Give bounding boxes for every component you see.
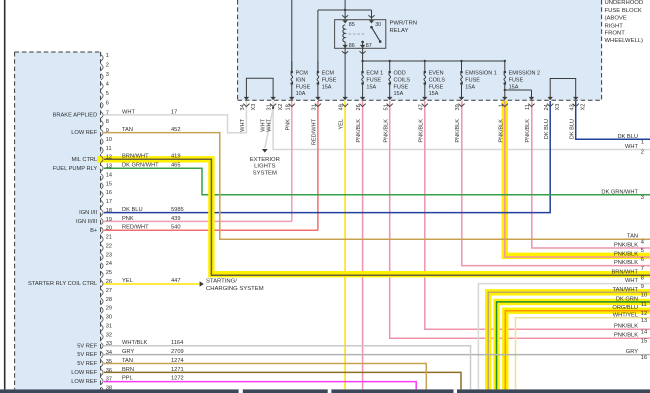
svg-text:WHT: WHT [122, 109, 135, 115]
wire RED/WHT 540 pin20 [104, 229, 318, 231]
wire PNK/BLK 47 to net14 [425, 101, 650, 329]
svg-text:15A: 15A [509, 84, 519, 90]
svg-text:DK BLU: DK BLU [544, 119, 550, 139]
svg-text:39: 39 [455, 104, 461, 110]
relay connector marks above [342, 15, 348, 18]
wire WHT branch to exterior lights [265, 108, 273, 148]
bus junction EVEN [424, 60, 426, 62]
relay pin 87 wire down [362, 48, 364, 61]
wire DK GRN/WHT 465 pin13 to net3 [104, 168, 650, 195]
WHT jumper inside fuse block [246, 78, 273, 97]
svg-text:29: 29 [106, 306, 112, 312]
svg-text:31: 31 [106, 323, 112, 329]
feed branch to ECM fuse [317, 10, 319, 71]
svg-text:PNK/BLK: PNK/BLK [418, 119, 424, 143]
svg-text:439: 439 [171, 216, 181, 222]
svg-text:PNK/BLK: PNK/BLK [498, 119, 504, 143]
svg-text:25: 25 [106, 270, 112, 276]
svg-text:5985: 5985 [171, 207, 184, 213]
svg-text:GRY: GRY [122, 349, 134, 355]
svg-text:15A: 15A [394, 91, 404, 97]
svg-text:15: 15 [106, 181, 112, 187]
bus junction ODD [389, 60, 391, 62]
exterior lights arrow [262, 149, 268, 153]
svg-text:PNK/BLK: PNK/BLK [455, 119, 461, 143]
svg-text:30: 30 [375, 22, 381, 28]
svg-text:8: 8 [106, 119, 109, 125]
svg-text:DK BLU: DK BLU [122, 207, 143, 213]
svg-text:BRN: BRN [122, 367, 134, 373]
svg-text:(ABOVE: (ABOVE [605, 16, 627, 22]
svg-text:PNK: PNK [285, 119, 291, 131]
svg-text:10A: 10A [296, 91, 306, 97]
svg-text:WHT: WHT [625, 278, 638, 284]
svg-text:RED/WHT: RED/WHT [312, 118, 318, 145]
svg-text:13: 13 [106, 164, 112, 170]
svg-text:4: 4 [106, 82, 109, 88]
svg-text:5V REF: 5V REF [77, 343, 97, 349]
svg-text:34: 34 [240, 104, 246, 110]
svg-text:ECM 1: ECM 1 [366, 71, 383, 77]
svg-text:1: 1 [641, 140, 644, 146]
svg-text:2: 2 [106, 63, 109, 69]
svg-text:10: 10 [641, 293, 647, 299]
starting/charging arrow [200, 281, 204, 286]
feed branch to relay pin 30 [371, 10, 373, 20]
svg-text:ODD: ODD [394, 71, 406, 77]
svg-text:DK GRN/WHT: DK GRN/WHT [601, 189, 638, 195]
svg-text:GRY: GRY [626, 349, 638, 355]
svg-text:WHT: WHT [240, 118, 246, 131]
svg-text:X2: X2 [278, 104, 284, 111]
svg-text:1: 1 [498, 104, 504, 107]
junction feed [344, 9, 346, 11]
svg-text:9: 9 [106, 128, 109, 134]
svg-text:5V REF: 5V REF [77, 361, 97, 367]
svg-text:419: 419 [171, 154, 181, 160]
svg-text:FUSE BLOCK: FUSE BLOCK [605, 8, 642, 14]
wire PNK/BLK 1 to net6 (highlighted) [505, 101, 650, 257]
wire YEL 447 pin26 [104, 283, 200, 285]
svg-text:31: 31 [267, 104, 273, 110]
svg-text:WHEELWELL): WHEELWELL) [605, 38, 644, 44]
svg-text:47: 47 [418, 104, 424, 110]
svg-text:FUSE: FUSE [429, 84, 444, 90]
svg-text:540: 540 [171, 225, 181, 231]
relay pin 87 contact [361, 41, 364, 44]
relay pin 87 arrow [360, 45, 365, 48]
svg-text:28: 28 [106, 297, 112, 303]
svg-text:2: 2 [641, 150, 644, 156]
fuse supply bus [363, 60, 505, 62]
svg-text:DK GRN/WHT: DK GRN/WHT [122, 163, 159, 169]
svg-text:43: 43 [569, 104, 575, 110]
svg-text:1272: 1272 [171, 376, 184, 382]
svg-text:PNK/BLK: PNK/BLK [614, 260, 638, 266]
svg-text:15A: 15A [465, 84, 475, 90]
svg-text:5V REF: 5V REF [77, 352, 97, 358]
wire BRN 1271 pin36 down [104, 372, 461, 389]
svg-text:EXTERIOR: EXTERIOR [250, 157, 280, 163]
wire PNK/BLK 11 to net5 [532, 101, 650, 248]
svg-text:3: 3 [641, 195, 644, 201]
svg-text:PWR/TRN: PWR/TRN [390, 20, 418, 26]
svg-text:31: 31 [312, 104, 318, 110]
svg-text:21: 21 [106, 235, 112, 241]
wire DK GRN net11 (highlighted) [497, 302, 650, 390]
svg-text:11: 11 [525, 104, 531, 110]
feed branch horizontal [318, 9, 372, 11]
EMISSION 2 branch to PNK/BLK 11 [505, 89, 532, 91]
svg-text:BRN/WHT: BRN/WHT [122, 154, 149, 160]
svg-text:15A: 15A [429, 91, 439, 97]
svg-text:17: 17 [106, 199, 112, 205]
svg-text:FUSE: FUSE [394, 84, 409, 90]
svg-text:23: 23 [106, 252, 112, 258]
svg-text:STARTER RLY COIL CTRL: STARTER RLY COIL CTRL [28, 281, 97, 287]
svg-text:PPL: PPL [122, 376, 133, 382]
svg-text:6: 6 [641, 257, 644, 263]
wire WHT/BLK 1164 pin33 down [104, 346, 471, 390]
svg-text:WHT: WHT [267, 118, 273, 131]
svg-text:7: 7 [641, 266, 644, 272]
svg-text:86: 86 [349, 43, 355, 49]
svg-text:24: 24 [544, 104, 550, 110]
relay coil [343, 25, 345, 49]
svg-text:FUSE: FUSE [366, 77, 381, 83]
fuse ODD COILS FUSE 15A [389, 61, 391, 71]
svg-text:85: 85 [349, 22, 355, 28]
svg-text:PNK/BLK: PNK/BLK [525, 119, 531, 143]
svg-text:IGN I/II: IGN I/II [79, 210, 97, 216]
svg-text:COILS: COILS [394, 77, 411, 83]
svg-text:32: 32 [106, 332, 112, 338]
highlight band DK GRN [497, 302, 650, 390]
svg-text:11: 11 [106, 146, 112, 152]
svg-text:FUSE: FUSE [296, 84, 311, 90]
svg-text:12: 12 [106, 155, 112, 161]
PCM connector pins 1-38 [101, 55, 103, 61]
wire DK BLU 43 X2 to net1 [576, 101, 650, 139]
svg-text:447: 447 [171, 278, 181, 284]
highlight band PNK/BLK 1 [505, 101, 650, 256]
svg-text:LOW REF: LOW REF [71, 130, 97, 136]
underhood fuse block left dashed border [237, 0, 239, 100]
PCM box left dashed border [14, 52, 16, 389]
wire WHT 17 X3-34 drop [104, 101, 246, 133]
svg-text:5: 5 [106, 91, 109, 97]
highlight band ORG/BLU [505, 311, 650, 390]
fuse ECM FUSE 15A [317, 61, 319, 71]
svg-text:9: 9 [641, 284, 644, 290]
wire WHT/YEL net13 [516, 318, 650, 390]
svg-text:WHT/YEL: WHT/YEL [613, 312, 638, 318]
svg-text:PNK/BLK: PNK/BLK [383, 119, 389, 143]
svg-text:TAN/WHT: TAN/WHT [613, 287, 639, 293]
wire PPL 1272 pin37 down [104, 382, 416, 390]
svg-text:2709: 2709 [171, 349, 184, 355]
svg-text:X3: X3 [251, 104, 257, 111]
wire YEL 49 drop [344, 101, 346, 389]
wire WHT net9 from bottom [478, 284, 650, 390]
svg-text:36: 36 [106, 368, 112, 374]
svg-text:RED/WHT: RED/WHT [122, 225, 149, 231]
svg-text:UNDERHOOD: UNDERHOOD [605, 0, 644, 6]
svg-text:PNK/BLK: PNK/BLK [614, 324, 638, 330]
fuse EVEN COILS FUSE 15A [424, 61, 426, 71]
svg-text:RIGHT: RIGHT [605, 23, 624, 29]
wire WHT 31 X2 drop to net2 [273, 101, 650, 150]
svg-text:DK BLU: DK BLU [617, 134, 638, 140]
fuse block exit arrows [244, 97, 249, 100]
svg-text:1164: 1164 [171, 340, 183, 346]
fuse EMISSION 1 FUSE 15A [461, 61, 463, 71]
svg-text:EVEN: EVEN [429, 71, 444, 77]
relay pin 86 wire down (to YEL 49) [344, 48, 346, 97]
svg-text:FUSE: FUSE [322, 77, 337, 83]
svg-text:BRN/WHT: BRN/WHT [611, 270, 638, 276]
svg-text:FUSE: FUSE [509, 77, 524, 83]
PCM box top dashed border [15, 51, 101, 53]
svg-text:1: 1 [106, 53, 109, 59]
svg-text:17: 17 [171, 109, 177, 115]
svg-text:1274: 1274 [171, 358, 184, 364]
svg-text:LIGHTS: LIGHTS [254, 164, 275, 170]
svg-text:WHT: WHT [261, 118, 267, 131]
svg-text:15A: 15A [366, 84, 376, 90]
relay switch blade [372, 27, 381, 41]
wire DK BLU 5985 pin18 to X3-24 [104, 101, 550, 213]
bus junction ECM1 [361, 60, 363, 62]
wire PNK/BLK 26 drop [362, 101, 364, 389]
svg-text:20: 20 [106, 226, 112, 232]
wire BRN/WHT 419 pin12 to net8 (highlighted) [104, 159, 650, 275]
svg-text:37: 37 [106, 377, 112, 383]
svg-text:15A: 15A [322, 84, 332, 90]
relay connector marks below [342, 51, 348, 54]
fuse ECM 1 FUSE 15A [362, 61, 364, 71]
svg-text:ORG/BLU: ORG/BLU [612, 305, 638, 311]
svg-text:PNK/BLK: PNK/BLK [356, 119, 362, 143]
svg-text:WHT: WHT [625, 144, 638, 150]
highlight band TAN/WHT [488, 292, 650, 389]
svg-text:4: 4 [641, 239, 644, 245]
svg-text:X2: X2 [581, 104, 587, 111]
svg-text:LOW REF: LOW REF [71, 370, 97, 376]
wire ORG/BLU net12 (highlighted) [505, 311, 650, 390]
svg-text:19: 19 [106, 217, 112, 223]
svg-text:TAN: TAN [627, 234, 638, 240]
svg-text:X3: X3 [555, 104, 561, 111]
svg-text:STARTING/: STARTING/ [206, 279, 237, 285]
wire PNK 439 pin19 [104, 220, 292, 222]
svg-text:6: 6 [106, 101, 109, 107]
svg-text:WHT/BLK: WHT/BLK [122, 340, 147, 346]
svg-text:B+: B+ [90, 228, 98, 234]
svg-text:30: 30 [106, 315, 112, 321]
svg-text:10: 10 [106, 137, 112, 143]
wire GRY 2709 pin34 to net16 [104, 354, 650, 356]
PCM connector box (fill) [15, 52, 101, 389]
svg-text:452: 452 [171, 127, 181, 133]
highlight band BRN/WHT 419 [97, 159, 650, 274]
svg-text:TAN: TAN [122, 127, 133, 133]
svg-text:14: 14 [641, 329, 647, 335]
svg-text:PCM: PCM [296, 71, 309, 77]
svg-text:PNK/BLK: PNK/BLK [614, 333, 638, 339]
svg-text:FUEL PUMP RLY: FUEL PUMP RLY [53, 166, 98, 172]
PCM box right dashed border [100, 52, 102, 389]
svg-text:EMISSION 1: EMISSION 1 [465, 71, 496, 77]
svg-text:26: 26 [106, 279, 112, 285]
svg-text:465: 465 [171, 163, 181, 169]
svg-text:YEL: YEL [339, 119, 345, 130]
svg-text:15: 15 [641, 338, 647, 344]
bus junction EMISSION1 [460, 60, 462, 62]
svg-text:3: 3 [106, 72, 109, 78]
svg-text:EMISSION 2: EMISSION 2 [509, 71, 540, 77]
svg-text:1271: 1271 [171, 367, 184, 373]
svg-text:LOW REF: LOW REF [71, 379, 97, 385]
svg-text:SYSTEM: SYSTEM [253, 170, 277, 176]
svg-text:7: 7 [106, 110, 109, 116]
wire TAN 1274 pin35 down [104, 364, 426, 390]
wire TAN 452 pin9 to net4 [104, 133, 650, 240]
svg-text:35: 35 [106, 359, 112, 365]
svg-text:13: 13 [641, 318, 647, 324]
svg-text:34: 34 [106, 350, 112, 356]
feed wire to relay pin 85 from top [344, 0, 346, 20]
wire TAN/WHT net10 (highlighted) [488, 292, 650, 389]
wire PNK 18 drop [291, 101, 293, 221]
svg-text:87: 87 [366, 43, 372, 49]
svg-text:5: 5 [641, 248, 644, 254]
svg-text:26: 26 [356, 104, 362, 110]
svg-text:8: 8 [641, 275, 644, 281]
svg-text:14: 14 [106, 172, 112, 178]
left page border line [4, 0, 6, 389]
bottom component band [0, 389, 650, 393]
wire PNK/BLK 39 to net7 [462, 101, 650, 266]
svg-text:18: 18 [106, 208, 112, 214]
svg-text:RELAY: RELAY [390, 28, 409, 34]
underhood fuse block right dashed border [601, 0, 603, 100]
fuse EMISSION 2 FUSE 15A [504, 61, 506, 71]
PWR/TRN relay U1 box [335, 20, 386, 49]
svg-text:24: 24 [106, 261, 112, 267]
fuse PCM IGN FUSE 10A [291, 61, 293, 71]
relay pin 86 arrow [342, 45, 347, 48]
fuse PCM IGN (wire from top) [291, 0, 293, 71]
svg-text:ECM: ECM [322, 71, 335, 77]
svg-text:PNK/BLK: PNK/BLK [614, 243, 638, 249]
bus junction EMISSION2 [504, 60, 506, 62]
wire PNK/BLK 51 to net15 [390, 101, 650, 338]
svg-text:12: 12 [641, 311, 647, 317]
svg-text:22: 22 [106, 243, 112, 249]
svg-text:11: 11 [641, 302, 647, 308]
underhood fuse block (box fill) [238, 0, 602, 100]
svg-text:27: 27 [106, 288, 112, 294]
fuse block exit connector marks [243, 104, 249, 107]
DK BLU jumper inside fuse block [550, 79, 576, 98]
svg-text:CHARGING SYSTEM: CHARGING SYSTEM [206, 286, 264, 292]
svg-text:33: 33 [106, 341, 112, 347]
relay pin 30 arrow [369, 20, 374, 23]
svg-text:IGN: IGN [296, 77, 306, 83]
junction WHT branch [272, 107, 274, 109]
svg-text:51: 51 [383, 104, 389, 110]
svg-text:18: 18 [285, 104, 291, 110]
svg-text:MIL CTRL: MIL CTRL [71, 157, 97, 163]
svg-text:DK GRN: DK GRN [616, 296, 638, 302]
svg-text:PNK/BLK: PNK/BLK [614, 252, 638, 258]
svg-text:YEL: YEL [122, 278, 133, 284]
relay actuation dashed line [349, 33, 365, 35]
svg-text:IGN II/III: IGN II/III [76, 219, 98, 225]
svg-text:DK BLU: DK BLU [569, 119, 575, 139]
svg-text:16: 16 [641, 355, 647, 361]
svg-text:FUSE: FUSE [465, 77, 480, 83]
svg-text:FRONT: FRONT [605, 31, 626, 37]
svg-text:49: 49 [339, 104, 345, 110]
svg-text:BRAKE APPLIED: BRAKE APPLIED [53, 112, 98, 118]
svg-text:TAN: TAN [122, 358, 133, 364]
svg-text:16: 16 [106, 190, 112, 196]
underhood fuse block bottom dashed border [238, 99, 602, 101]
relay pin 85 arrow [342, 20, 347, 23]
wire RED/WHT 31 drop [317, 101, 319, 230]
svg-text:PNK: PNK [122, 216, 134, 222]
svg-text:COILS: COILS [429, 77, 446, 83]
